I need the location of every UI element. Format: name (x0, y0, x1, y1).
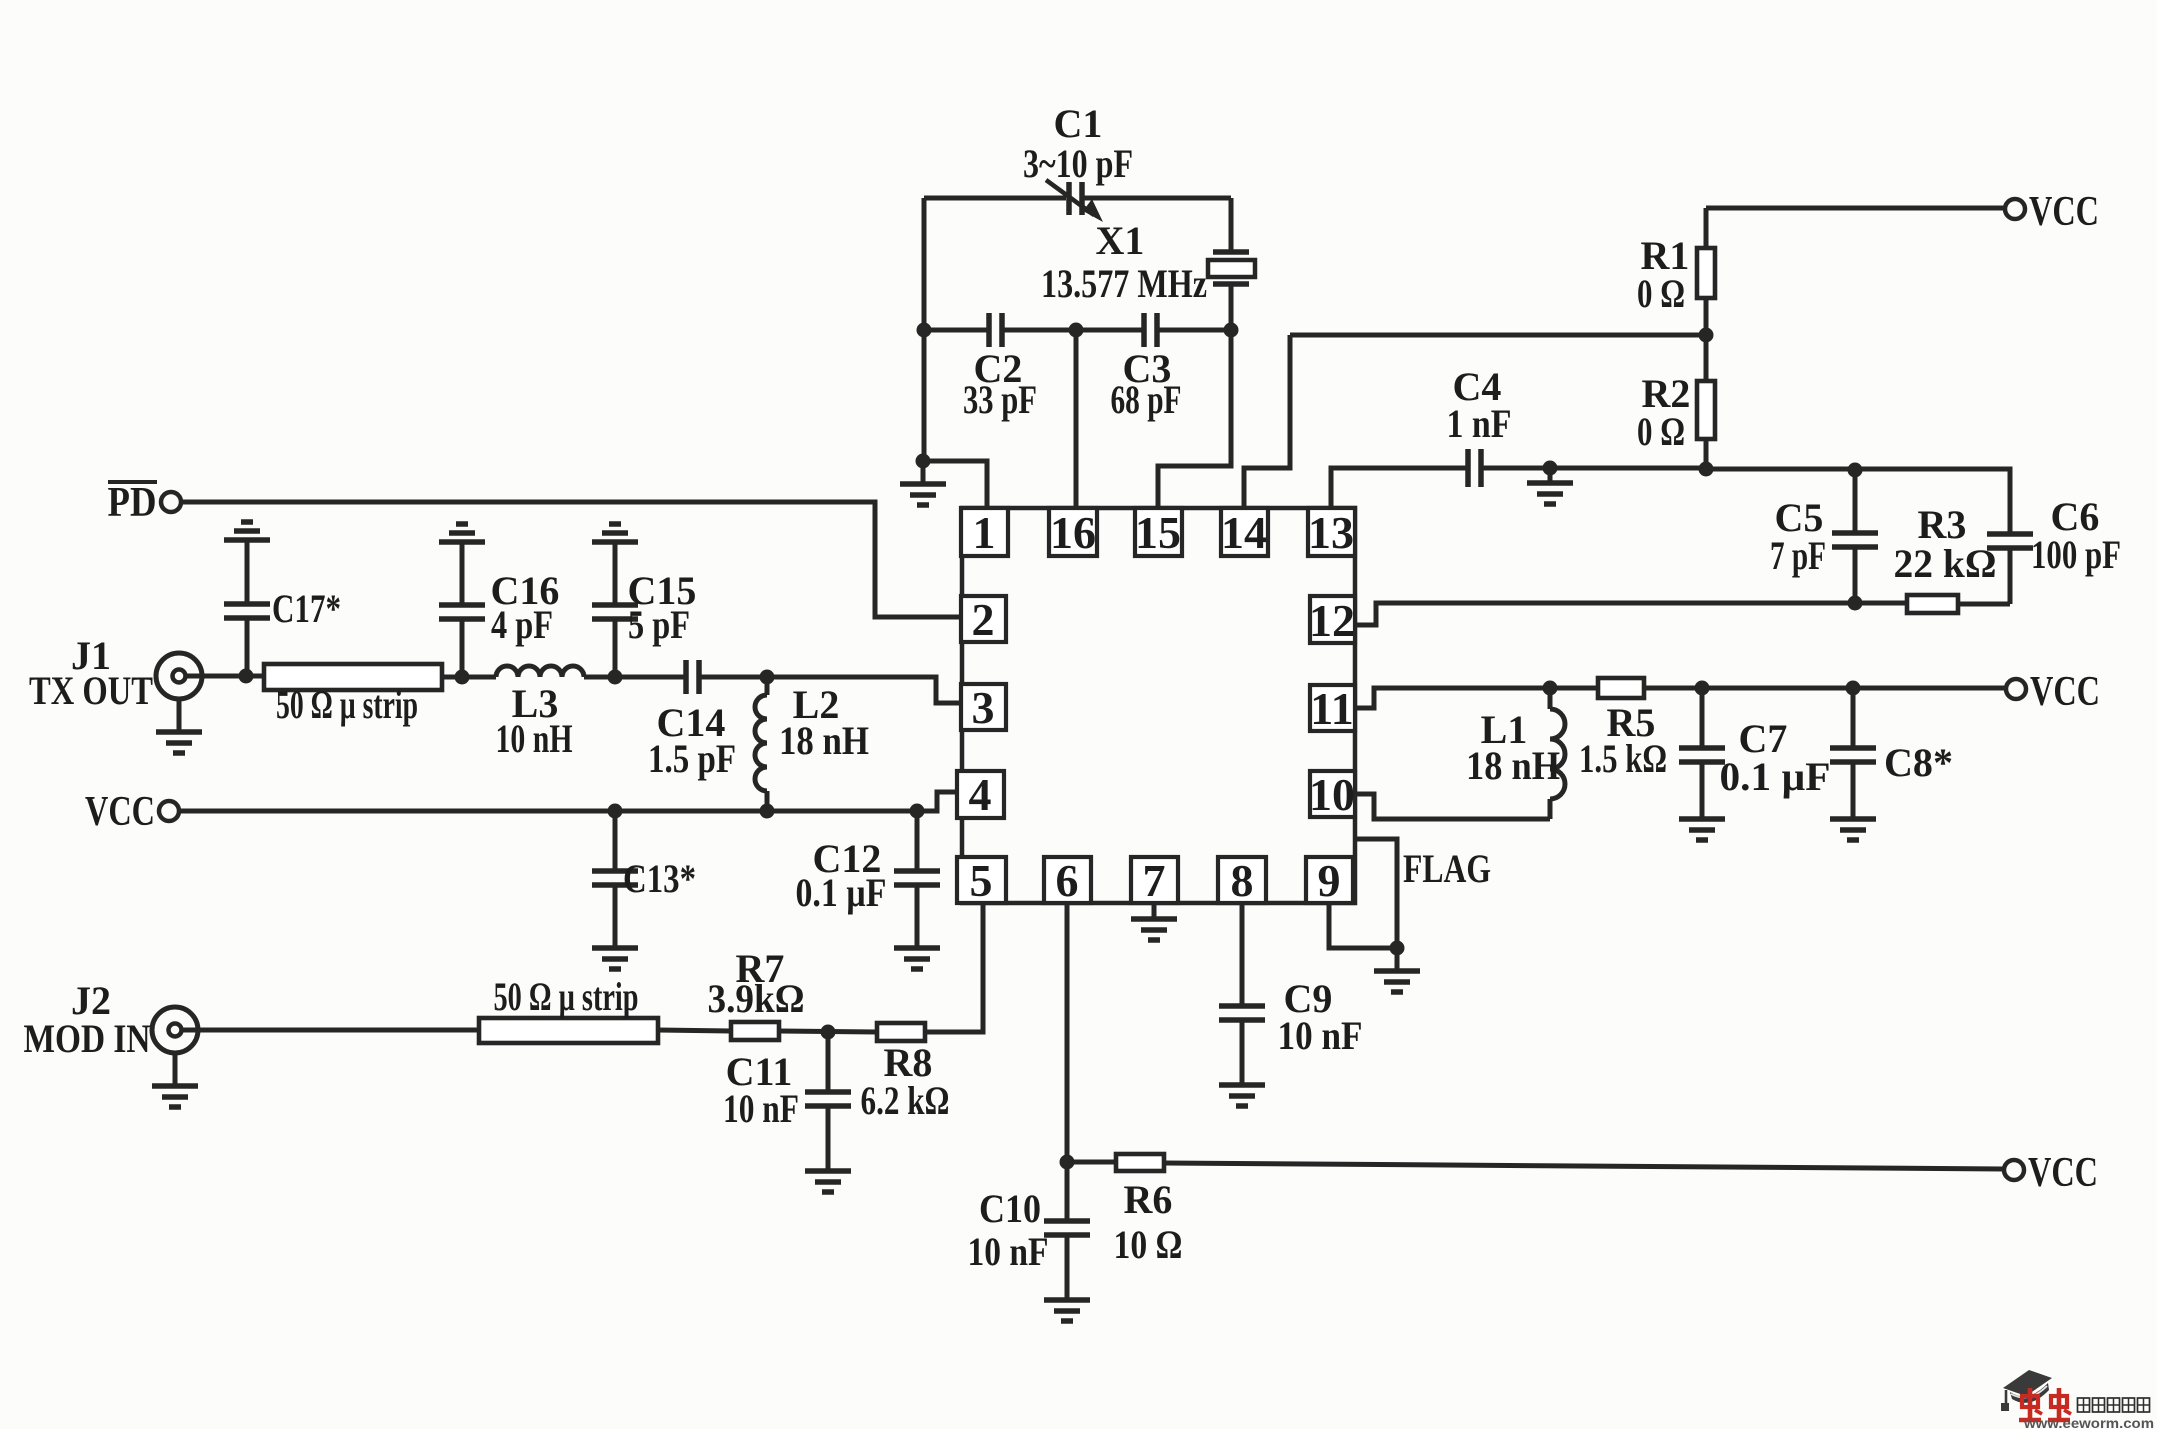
ground (above C15) (592, 524, 638, 542)
crystal X1 (1041, 198, 1255, 331)
node junction C10/R6 (1060, 1155, 1075, 1170)
ground (J1) (156, 699, 202, 753)
svg-text:11: 11 (1310, 683, 1353, 734)
node junction C11 (821, 1025, 836, 1040)
ground (C7) (1679, 819, 1725, 840)
capacitor C7 (1679, 688, 1831, 819)
wire pin1 link (923, 461, 987, 508)
pin 12 (1309, 595, 1355, 646)
svg-text:C17*: C17* (272, 586, 341, 631)
pin 9 (1306, 855, 1353, 906)
svg-text:3.9kΩ: 3.9kΩ (708, 976, 805, 1021)
pin 5 (957, 855, 1006, 906)
wire J1 to microstrip (186, 674, 264, 679)
resistor R1 (1637, 208, 1715, 335)
svg-text:68 pF: 68 pF (1111, 377, 1182, 422)
pin 8 (1218, 855, 1266, 906)
capacitor C6 (1987, 494, 2121, 604)
node junction C13 (608, 804, 623, 819)
ground (above C16) (439, 524, 485, 542)
svg-text:TX OUT: TX OUT (29, 668, 153, 713)
wire L1 bottom to pin 10 (1355, 794, 1550, 819)
resistor R3 (1855, 502, 2010, 613)
terminal VCC (left) (85, 789, 179, 835)
wire osc loop left (922, 198, 927, 461)
svg-text:6: 6 (1056, 855, 1079, 906)
svg-text:4: 4 (969, 769, 992, 820)
pin 10 (1309, 769, 1355, 820)
capacitor C9 (1219, 976, 1363, 1085)
svg-text:15: 15 (1135, 507, 1181, 558)
svg-text:8: 8 (1231, 855, 1254, 906)
pin 6 (1044, 855, 1091, 906)
capacitor C10 (968, 1186, 1091, 1300)
capacitor C12 (796, 811, 941, 948)
wire pin13 riser (1331, 468, 1468, 508)
pin 3 (961, 682, 1006, 733)
wire R6 to VCC bottom (1164, 1163, 2003, 1169)
wire R2 bottom to C6 top (1706, 469, 2010, 534)
node junction osc left (917, 323, 932, 338)
svg-text:7: 7 (1143, 855, 1166, 906)
ground (FLAG) (1374, 971, 1420, 992)
svg-text:0.1 µF: 0.1 µF (796, 870, 887, 915)
svg-text:VCC: VCC (85, 789, 155, 835)
svg-text:12: 12 (1309, 595, 1355, 646)
node junction C5 bottom (1848, 596, 1863, 611)
inductor L2 (755, 677, 869, 811)
wire C2/C3 line (924, 328, 1231, 333)
wire VCC rail to pin 4 (180, 792, 959, 811)
node FLAG label (1403, 846, 1491, 891)
terminal VCC (bottom right) (2004, 1150, 2098, 1196)
capacitor C4 (1447, 364, 1512, 487)
capacitor C5 (1770, 470, 1878, 603)
svg-text:VCC: VCC (2029, 189, 2099, 235)
svg-text:10 Ω: 10 Ω (1114, 1222, 1183, 1267)
pin 16 (1049, 507, 1097, 558)
pin 4 (957, 769, 1004, 820)
svg-text:18 nH: 18 nH (1466, 743, 1560, 788)
wire strip to L3 (442, 675, 496, 680)
node junction crystal bottom (1224, 323, 1239, 338)
svg-text:16: 16 (1050, 507, 1096, 558)
pin 11 (1310, 683, 1355, 734)
capacitor C16 (439, 542, 559, 677)
svg-text:10: 10 (1309, 769, 1355, 820)
pin 2 (961, 594, 1006, 645)
svg-text:13: 13 (1308, 507, 1354, 558)
svg-text:5 pF: 5 pF (628, 602, 690, 647)
node junction L2 top (760, 670, 775, 685)
pin 14 (1221, 507, 1268, 558)
svg-text:1 nF: 1 nF (1447, 401, 1512, 446)
IC U1 outline (962, 508, 1355, 903)
svg-text:33 pF: 33 pF (963, 377, 1037, 422)
svg-text:1.5 pF: 1.5 pF (648, 736, 736, 781)
wire C14 to pin 3 (699, 677, 959, 703)
ground (C13) (592, 948, 638, 969)
wire FLAG stub (1355, 839, 1397, 971)
capacitor C3 (1111, 313, 1182, 422)
wire pin8 down (1240, 903, 1245, 1006)
node FLAG ground junction (1390, 941, 1405, 956)
node junction C5 top (1848, 463, 1863, 478)
svg-text:C1: C1 (1054, 101, 1103, 146)
resistor R5 (1579, 678, 1667, 781)
svg-text:10 nH: 10 nH (496, 716, 573, 761)
node junction C7 (1695, 681, 1710, 696)
svg-text:0 Ω: 0 Ω (1637, 409, 1685, 454)
svg-text:50 Ω µ strip: 50 Ω µ strip (494, 974, 639, 1019)
resistor R7 (708, 946, 805, 1040)
capacitor C1 (trimmer) (924, 101, 1231, 222)
svg-text:0.1 µF: 0.1 µF (1720, 754, 1831, 799)
wire pin12 to C5 bottom (1355, 603, 1855, 625)
wire pin14 riser (1244, 335, 1290, 508)
svg-text:3: 3 (972, 682, 995, 733)
pin 13 (1308, 507, 1355, 558)
svg-text:100 pF: 100 pF (2031, 532, 2121, 577)
wire pin16 riser (1074, 330, 1079, 508)
node junction L1 top (1543, 681, 1558, 696)
resistor R6 (1067, 1154, 1183, 1267)
ground (C9) (1219, 1085, 1265, 1106)
microstrip 50ohm (J1 side) (264, 664, 442, 727)
svg-text:2: 2 (972, 594, 995, 645)
ground (C10) (1044, 1300, 1090, 1321)
svg-text:7 pF: 7 pF (1770, 533, 1826, 578)
svg-text:FLAG: FLAG (1403, 846, 1491, 891)
ground (above C17) (224, 522, 270, 540)
ground (J2) (152, 1053, 198, 1107)
wire pin11 out (1355, 688, 1597, 708)
svg-text:PD: PD (108, 480, 157, 526)
wire pin14 to R1/R2 junction (1290, 333, 1706, 338)
svg-text:10 nF: 10 nF (968, 1229, 1049, 1274)
node junction C12 (910, 804, 925, 819)
microstrip 50ohm (J2 side) (479, 974, 658, 1043)
svg-text:14: 14 (1221, 507, 1267, 558)
watermark eeworm logo (2001, 1370, 2154, 1429)
resistor R8 (861, 1023, 950, 1123)
svg-text:9: 9 (1318, 855, 1341, 906)
ground (C4) (1527, 468, 1573, 504)
svg-text:VCC: VCC (2030, 669, 2100, 715)
node junction osc ground (916, 454, 931, 469)
inductor L1 (1466, 688, 1565, 819)
wire strip to R7 (658, 1030, 731, 1031)
svg-text:R6: R6 (1124, 1177, 1173, 1222)
terminal VCC (top right) (2005, 189, 2099, 235)
svg-text:13.577 MHz: 13.577 MHz (1041, 261, 1207, 306)
svg-text:50 Ω µ strip: 50 Ω µ strip (276, 682, 418, 727)
wire VCC top rail (1706, 206, 2004, 211)
svg-text:6.2 kΩ: 6.2 kΩ (861, 1078, 950, 1123)
capacitor C14 (648, 660, 736, 781)
node junction C16 (455, 670, 470, 685)
terminal VCC (middle right) (2006, 669, 2100, 715)
svg-text:C13*: C13* (623, 856, 696, 901)
wire PD net (PD terminal to pin 2) (182, 502, 959, 617)
ground (C12) (894, 948, 940, 969)
svg-text:1.5 kΩ: 1.5 kΩ (1579, 736, 1667, 781)
connector J1 (TX OUT) (29, 633, 202, 713)
node junction pin16 tap (1069, 323, 1084, 338)
wire J2 to microstrip (182, 1028, 479, 1033)
svg-text:4 pF: 4 pF (491, 602, 553, 647)
svg-text:3~10 pF: 3~10 pF (1023, 141, 1133, 186)
svg-text:www.eeworm.com: www.eeworm.com (2023, 1415, 2154, 1429)
svg-text:10 nF: 10 nF (723, 1086, 799, 1131)
svg-text:1: 1 (973, 507, 996, 558)
pin 15 (1135, 507, 1182, 558)
wire R7 to R8 (779, 1031, 877, 1032)
capacitor C15 (592, 542, 696, 677)
svg-text:VCC: VCC (2028, 1150, 2098, 1196)
resistor R2 (1637, 335, 1715, 469)
node junction C15 (608, 670, 623, 685)
capacitor C11 (723, 1032, 851, 1171)
inductor L3 (496, 666, 585, 761)
node junction C4 ground (1543, 461, 1558, 476)
wire R5 to VCC mid (1644, 686, 2005, 691)
ground (C11) (805, 1171, 851, 1192)
pin 7 (1131, 855, 1178, 906)
wire pin7 down (1152, 903, 1157, 919)
ground (osc) (900, 461, 946, 505)
svg-text:22 kΩ: 22 kΩ (1894, 541, 1997, 586)
wire pin9 down (1329, 903, 1397, 948)
wire L3 to C14 (584, 675, 685, 680)
connector J2 (MOD IN) (24, 978, 199, 1061)
wire pin6 down (1065, 903, 1070, 1221)
capacitor C8* (1830, 688, 1953, 819)
terminal PD (108, 480, 182, 526)
svg-text:C10: C10 (979, 1186, 1041, 1231)
svg-text:X1: X1 (1096, 218, 1145, 263)
capacitor C2 (963, 313, 1037, 422)
node junction J1/C17 (239, 669, 254, 684)
svg-text:18 nH: 18 nH (779, 718, 869, 763)
ground (pin 7) (1131, 919, 1177, 940)
node junction L2 bottom (760, 804, 775, 819)
wire C4 to R2 bottom (1481, 466, 1706, 471)
pin 1 (961, 507, 1008, 558)
capacitor C13* (592, 811, 696, 948)
svg-text:5: 5 (970, 855, 993, 906)
capacitor C17* (224, 540, 341, 676)
ground (C8) (1830, 819, 1876, 840)
svg-text:10 nF: 10 nF (1278, 1013, 1363, 1058)
wire pin15 riser (1158, 330, 1231, 508)
svg-text:0 Ω: 0 Ω (1637, 271, 1685, 316)
svg-text:C8*: C8* (1884, 740, 1953, 785)
svg-text:MOD IN: MOD IN (24, 1016, 151, 1061)
wire R8 to pin 5 (925, 903, 983, 1032)
node junction R1/R2 (1699, 328, 1714, 343)
node junction C8 (1846, 681, 1861, 696)
node junction R2 bottom (1699, 462, 1714, 477)
